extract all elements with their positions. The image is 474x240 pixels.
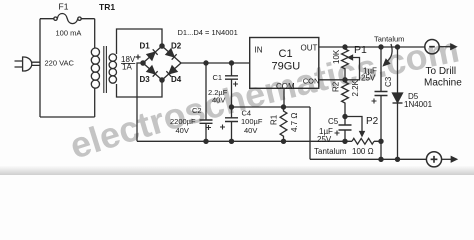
junction D5 top [395,45,399,49]
junction bridge bottom node [160,78,164,82]
svg-text:2.2K: 2.2K [351,79,360,96]
junction C3 bottom rail [379,139,383,143]
diode D1 [147,49,158,60]
svg-text:2200µF: 2200µF [170,117,196,126]
junction bridge top node [160,44,164,48]
transformer TR1 core [104,46,107,93]
svg-text:D4: D4 [171,75,182,84]
wire primary top drop [94,19,96,48]
wire secondary top to bridge [117,29,163,54]
svg-text:40V: 40V [212,96,225,105]
wire COM pin to mid rail [283,88,285,107]
terminal negative output [425,40,456,54]
svg-text:4.7 Ω: 4.7 Ω [290,113,299,132]
label C1 79GU [272,48,301,72]
svg-text:1A: 1A [122,63,132,72]
potentiometer P1 [319,47,360,80]
svg-text:C2: C2 [192,106,202,115]
junction R2 bottom / C5 top [343,114,347,118]
svg-text:220 VAC: 220 VAC [45,58,75,67]
svg-text:D2: D2 [171,42,182,51]
junction R1 top [281,105,285,109]
junction bridge left node [141,61,145,65]
svg-text:10K: 10K [332,49,341,64]
label C1 2.2uF 40V [208,73,228,105]
junction C2 top [204,61,208,65]
svg-text:R2: R2 [332,81,341,92]
label C5 1uF 25V [317,117,339,144]
capacitor C1 [225,63,238,107]
svg-text:P2: P2 [366,116,379,127]
IC C1 79GU regulator [250,38,319,89]
svg-text:F1: F1 [59,2,69,12]
svg-text:TR1: TR1 [99,2,115,12]
svg-text:1N4001: 1N4001 [404,100,433,109]
svg-text:100µF: 100µF [241,117,263,126]
resistor R2 [342,80,349,117]
label D5 1N4001 [404,92,433,109]
wire OUT rail [319,46,425,48]
svg-text:C1: C1 [279,48,293,60]
junction P1 wiper / CON / R2 top [343,78,347,82]
svg-text:Tantalum: Tantalum [314,147,347,156]
svg-text:IN: IN [255,46,263,55]
terminal positive output [426,152,456,167]
svg-text:To Drill: To Drill [426,66,457,77]
junction D5 bottom [395,157,399,161]
mains plug [15,57,41,71]
resistor R1 [280,107,287,141]
label C3 1uF 25V [361,67,377,83]
svg-text:P1: P1 [354,44,367,56]
svg-text:Tantalum: Tantalum [374,35,404,44]
svg-text:25V: 25V [361,74,376,83]
diode D5 [393,47,403,159]
svg-text:D3: D3 [140,75,151,84]
svg-text:C3: C3 [384,76,393,87]
svg-text:Machine: Machine [424,78,462,89]
wire mains top rail [40,18,95,20]
svg-text:40V: 40V [244,126,257,135]
wire bridge arms [143,46,181,80]
svg-text:D1: D1 [140,42,151,51]
junction C4 bottom [229,139,233,143]
wire mains bottom [40,116,95,118]
wire secondary bottom to bridge [117,80,163,97]
capacitor C4 [220,107,238,141]
junction C5 bottom [343,139,347,143]
wire bridge plus to bottom rail [137,63,143,141]
svg-text:D1...D4 = 1N4001: D1...D4 = 1N4001 [178,28,238,37]
junction C3 top [379,45,383,49]
transformer TR1 primary winding [91,48,99,88]
label C4 100uF 40V [241,108,263,135]
junction C1 top [229,61,233,65]
junction C3 output rail [379,157,383,161]
capacitor C2 [200,63,213,141]
capacitor C3 [372,47,388,159]
wire primary bottom drop [94,88,96,117]
wire mid rail drop to output rail [309,107,311,159]
fuse F1 [54,14,81,24]
label C2 2200uF 40V [170,106,202,135]
junction mid rail at C1/C4 [229,105,233,109]
wire bottom output rail [310,158,426,160]
svg-text:R1: R1 [270,114,279,125]
svg-text:C1: C1 [213,73,223,82]
arrow Tantalum to C3 [384,44,393,66]
svg-text:79GU: 79GU [272,60,301,72]
svg-text:25V: 25V [317,135,332,144]
wire negative rail to IC [181,62,250,64]
svg-text:100 mA: 100 mA [56,29,82,38]
wire mains left side [39,19,41,117]
junction P1 top [343,45,347,49]
potentiometer P2 wiper [345,117,364,137]
svg-text:40V: 40V [176,126,189,135]
label To Drill Machine [424,66,462,89]
diode D2 [166,49,177,60]
svg-text:COM: COM [276,82,295,91]
svg-text:CON: CON [303,77,320,86]
transformer TR1 secondary winding [109,54,116,83]
junction C2 bottom [204,139,208,143]
capacitor C5 [335,117,352,142]
svg-text:100 Ω: 100 Ω [352,147,374,156]
svg-text:C5: C5 [328,117,339,126]
label plus at bridge [136,55,141,60]
diode D3 [147,66,158,77]
junction R1 bottom [281,139,285,143]
svg-text:OUT: OUT [301,43,318,52]
potentiometer P2 track 100 ohm [352,138,374,144]
diode D4 [166,66,177,77]
wire mid rail [232,106,311,108]
wire bottom positive rail [137,140,382,142]
